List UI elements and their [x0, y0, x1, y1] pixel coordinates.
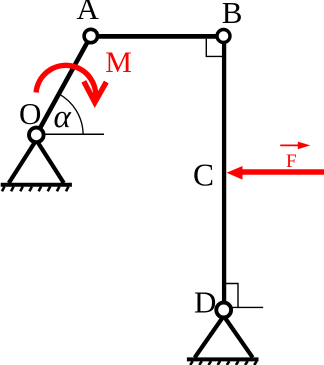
pin B: [217, 30, 230, 43]
right angle mark at B: [206, 39, 222, 57]
reference line at D: [232, 306, 263, 308]
angle arc alpha: [59, 94, 83, 134]
hatching at O: [2, 187, 69, 192]
ground line at O: [1, 183, 72, 187]
svg-text:α: α: [54, 99, 72, 135]
moment arrowhead: [84, 81, 107, 102]
right angle mark at D: [226, 284, 238, 308]
support triangle at O: [9, 140, 64, 183]
svg-text:D: D: [194, 285, 216, 320]
svg-text:O: O: [19, 96, 41, 131]
support triangle at D: [195, 316, 253, 358]
moment arc M: [36, 65, 96, 102]
horizontal reference line at O: [38, 133, 104, 135]
link OA: [36, 36, 91, 135]
hatching at D: [190, 361, 257, 365]
vector arrow over F: [280, 144, 300, 146]
ground line at D: [187, 357, 259, 361]
force F arrow shaft: [241, 169, 324, 175]
force F arrowhead: [227, 166, 243, 180]
svg-text:B: B: [222, 0, 243, 30]
svg-text:F: F: [286, 151, 297, 172]
svg-text:M: M: [105, 46, 132, 79]
bar BD: [222, 36, 226, 310]
pin D: [216, 303, 231, 318]
svg-text:A: A: [77, 0, 100, 26]
svg-text:C: C: [193, 158, 214, 193]
pin A: [84, 29, 97, 42]
vector arrowhead: [298, 142, 311, 150]
pin O: [29, 128, 44, 143]
bar AB: [91, 34, 224, 39]
